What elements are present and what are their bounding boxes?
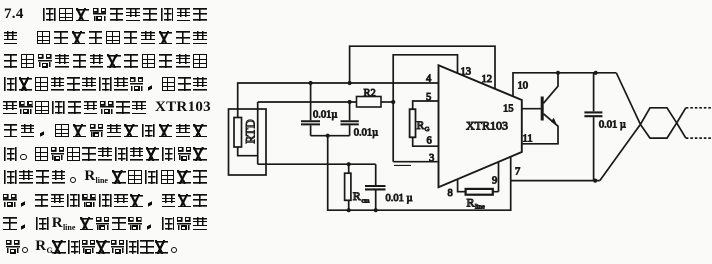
svg-text:12: 12	[482, 74, 493, 85]
svg-text:5: 5	[426, 92, 431, 103]
svg-text:0.01 µ: 0.01 µ	[599, 120, 626, 131]
svg-text:0.01 µ: 0.01 µ	[386, 193, 413, 204]
svg-text:R2: R2	[364, 88, 376, 99]
svg-text:line: line	[475, 204, 485, 211]
svg-text:6: 6	[427, 136, 432, 147]
svg-text:7: 7	[515, 167, 520, 178]
svg-text:9: 9	[492, 176, 497, 187]
svg-text:11: 11	[523, 134, 533, 145]
svg-text:R: R	[353, 189, 361, 203]
svg-text:G: G	[425, 126, 430, 133]
svg-text:cm: cm	[362, 198, 370, 205]
svg-text:XTR103: XTR103	[466, 119, 508, 133]
svg-text:8: 8	[448, 188, 453, 199]
svg-text:10: 10	[518, 81, 529, 92]
svg-text:RTD: RTD	[244, 119, 258, 143]
svg-text:0.01µ: 0.01µ	[354, 128, 378, 139]
svg-text:15: 15	[503, 104, 514, 115]
svg-text:0.01µ: 0.01µ	[313, 109, 337, 120]
svg-text:13: 13	[461, 67, 472, 78]
svg-text:R: R	[467, 196, 475, 210]
svg-text:R: R	[417, 120, 425, 132]
svg-text:3: 3	[429, 153, 434, 164]
svg-text:4: 4	[426, 74, 432, 85]
